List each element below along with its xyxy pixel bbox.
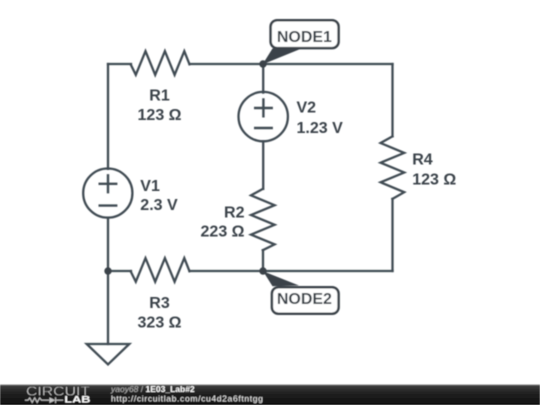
svg-text:NODE1: NODE1 [277, 29, 332, 46]
wire V2 to R2 [262, 141, 264, 189]
svg-text:123 Ω: 123 Ω [138, 107, 182, 124]
wire right vertical upper [391, 64, 393, 136]
junction node1 dot [259, 60, 266, 67]
svg-text:223 Ω: 223 Ω [201, 223, 245, 240]
svg-text:323 Ω: 323 Ω [138, 315, 182, 332]
voltage source V2 [239, 92, 288, 141]
junction node2 dot [259, 267, 266, 274]
ground [87, 344, 130, 364]
svg-text:R1: R1 [149, 88, 170, 105]
svg-text:R4: R4 [412, 152, 433, 169]
svg-text:R3: R3 [149, 295, 170, 312]
wire right vertical lower [391, 199, 393, 271]
wire left vertical to ground [107, 271, 109, 344]
resistor R1 [131, 51, 190, 75]
footer logo resistor-diode glyph [25, 397, 63, 403]
svg-text:V2: V2 [297, 100, 317, 117]
svg-text:123 Ω: 123 Ω [412, 172, 456, 189]
resistor R4 [381, 136, 405, 199]
svg-text:R2: R2 [224, 204, 245, 221]
resistor R2 [251, 189, 275, 250]
voltage source V1 [83, 169, 132, 218]
node NODE1 flag [271, 20, 339, 48]
wire V2 top lead [262, 64, 264, 93]
wire bottom horizontal left lead [108, 270, 131, 272]
node NODE1 pointer [263, 49, 302, 65]
svg-text:2.3 V: 2.3 V [140, 197, 178, 214]
junction left-bottom dot [104, 267, 111, 274]
svg-text:LAB: LAB [64, 395, 90, 405]
resistor R3 [131, 258, 190, 282]
node NODE2 pointer [263, 271, 299, 286]
wire left vertical lower [107, 218, 109, 271]
svg-text:NODE2: NODE2 [277, 291, 332, 308]
node NODE2 flag [272, 287, 339, 314]
wire bottom horizontal from R3 to right corner [190, 270, 393, 272]
svg-text:V1: V1 [140, 178, 160, 195]
wire left vertical upper [107, 64, 109, 169]
wire top horizontal left lead [108, 63, 131, 65]
svg-text:yaoy68 / 1E03_Lab#2: yaoy68 / 1E03_Lab#2 [110, 384, 195, 394]
wire R2 to node2 [262, 250, 264, 271]
svg-text:1.23 V: 1.23 V [297, 120, 344, 137]
svg-text:http://circuitlab.com/cu4d2a6f: http://circuitlab.com/cu4d2a6ftntgg [111, 394, 264, 404]
wire top horizontal from R1 to right corner [190, 63, 393, 65]
footer bar [0, 385, 540, 405]
